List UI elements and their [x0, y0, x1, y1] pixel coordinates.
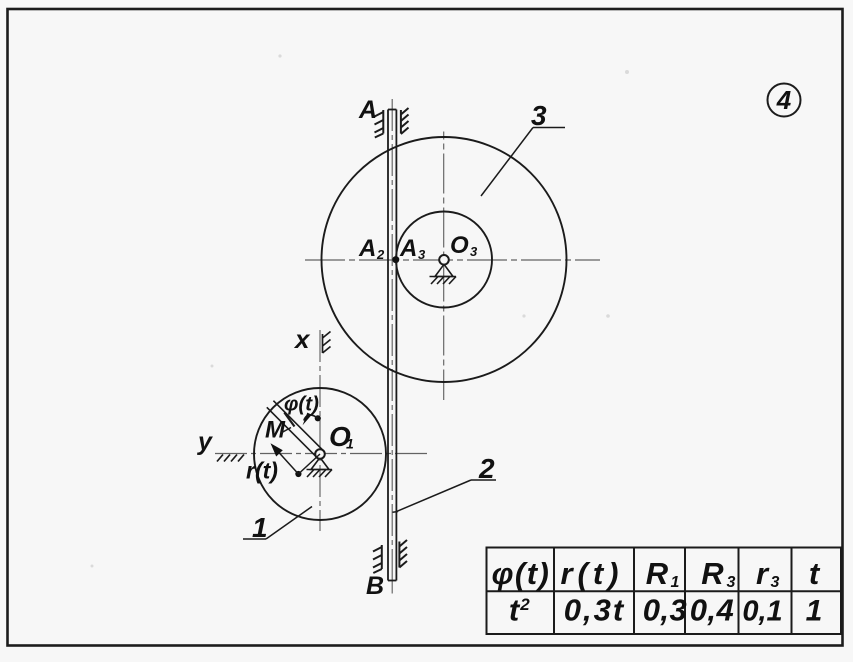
svg-text:3: 3 [531, 100, 547, 131]
svg-text:0,3: 0,3 [643, 593, 688, 628]
svg-text:1: 1 [806, 595, 823, 628]
svg-text:B: B [366, 572, 384, 600]
svg-text:r(t): r(t) [246, 458, 278, 484]
svg-text:3: 3 [727, 574, 736, 591]
svg-text:M: M [265, 417, 286, 444]
svg-text:y: y [196, 428, 213, 456]
svg-text:3: 3 [470, 244, 478, 259]
svg-text:A: A [358, 96, 377, 124]
svg-text:3: 3 [771, 574, 780, 591]
svg-text:φ(t): φ(t) [284, 393, 319, 416]
svg-text:1: 1 [671, 574, 680, 591]
svg-text:t: t [509, 593, 521, 628]
svg-text:0,4: 0,4 [690, 593, 735, 628]
svg-text:0,1: 0,1 [742, 596, 782, 628]
svg-text:O: O [450, 232, 469, 259]
svg-text:r(t): r(t) [560, 556, 623, 591]
svg-text:R: R [701, 556, 724, 591]
svg-text:r: r [756, 556, 770, 591]
svg-text:3: 3 [418, 247, 426, 262]
svg-text:t: t [809, 556, 821, 591]
svg-text:R: R [646, 556, 669, 591]
svg-text:4: 4 [776, 85, 792, 115]
svg-text:0,3t: 0,3t [564, 593, 625, 628]
svg-text:1: 1 [346, 436, 354, 452]
svg-text:2: 2 [376, 247, 385, 262]
svg-text:φ(t): φ(t) [492, 556, 551, 591]
svg-text:x: x [293, 324, 311, 354]
svg-text:A: A [399, 235, 417, 262]
svg-text:2: 2 [519, 595, 530, 614]
svg-text:A: A [358, 235, 376, 262]
